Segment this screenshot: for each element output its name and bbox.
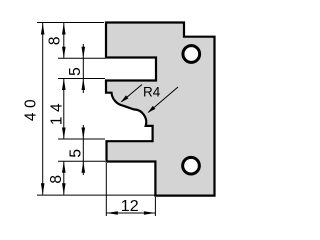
svg-text:5: 5 (67, 67, 84, 76)
dimension 8 bottom line (63, 161, 65, 195)
leader line R4 to round (149, 87, 179, 112)
extension line 12 right (154, 197, 156, 216)
dimension 14 line (63, 79, 65, 140)
extension line slot1 top (58, 57, 105, 59)
svg-text:12: 12 (121, 198, 139, 215)
svg-text:40: 40 (22, 95, 39, 121)
dimension 12 line (106, 212, 155, 214)
dimension 40 line (42, 23, 44, 195)
extension line tongue top (58, 138, 105, 140)
dimension 5 top line (82, 44, 84, 93)
svg-text:8: 8 (46, 36, 63, 45)
extension line tongue bottom (58, 160, 105, 162)
leader line R4 to cove (122, 85, 143, 102)
top mounting hole (183, 46, 200, 63)
svg-text:5: 5 (68, 149, 85, 158)
cutter plate body outline with ogee profile (106, 23, 215, 196)
extension line plate bottom (37, 194, 155, 196)
svg-text:8: 8 (48, 175, 65, 184)
extension line slot1 bottom (58, 78, 105, 80)
extension line top (37, 22, 104, 24)
bottom mounting hole (183, 157, 200, 174)
svg-text:R4: R4 (143, 85, 161, 100)
extension line 12 left (105, 163, 107, 216)
dimension 5 bottom line (82, 125, 84, 175)
svg-text:14: 14 (49, 99, 66, 125)
dimension 8 top line (63, 23, 65, 59)
